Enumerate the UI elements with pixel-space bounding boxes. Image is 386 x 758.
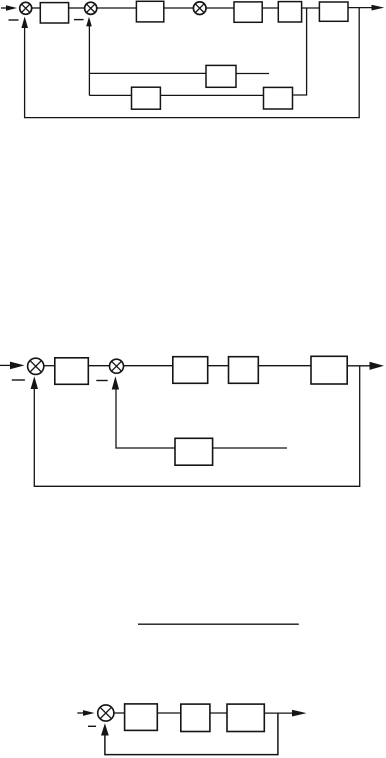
horizontal rule line bbox=[138, 623, 299, 625]
block B14 bbox=[125, 704, 158, 731]
block B9 bbox=[55, 358, 89, 385]
minus sign at S6 bbox=[88, 725, 96, 727]
wire B7 to B6 bbox=[160, 94, 263, 96]
wire S6 to B14 bbox=[114, 712, 125, 714]
wire S3 to B3 bbox=[206, 7, 234, 9]
arrowhead feedback into S5 bbox=[112, 376, 119, 389]
summer S5 bbox=[110, 359, 124, 373]
block B5 bbox=[319, 2, 348, 21]
wire S2 to B2 bbox=[97, 7, 136, 9]
arrowhead output bbox=[292, 710, 307, 717]
arrowhead feedback into S6 bbox=[101, 723, 109, 735]
wire B2 to S3 bbox=[164, 7, 193, 9]
wire S5 to B10 bbox=[124, 365, 173, 367]
arrowhead output bbox=[372, 5, 385, 11]
arrowhead output bbox=[370, 362, 385, 370]
wire B4 to B5 with node J1 bbox=[302, 7, 320, 9]
wire S1 to B1 bbox=[32, 7, 41, 9]
summer S4 bbox=[28, 358, 44, 374]
block B6 bbox=[132, 87, 161, 109]
wire takeoff J1 down to B7 bbox=[293, 8, 307, 95]
wire B3 to B4 bbox=[262, 7, 278, 9]
summer S1 bbox=[20, 2, 32, 14]
minus sign at S2 bbox=[74, 19, 84, 21]
wire output with node J4 bbox=[264, 712, 293, 714]
wire output with node J3 bbox=[347, 365, 371, 367]
wire B1 to S2 bbox=[69, 7, 85, 9]
wire middle feedback riser and left run bbox=[116, 389, 175, 449]
summer S3 bbox=[193, 2, 206, 15]
wire middle feedback right run (open end) bbox=[213, 447, 287, 449]
minus sign at S1 bbox=[9, 19, 19, 21]
block B16 bbox=[227, 704, 264, 731]
wire outer feedback J2 down, across, up into S1 bbox=[25, 8, 360, 118]
summer S6 bbox=[98, 705, 114, 721]
wire B6 to riser bbox=[89, 94, 131, 96]
wire input bbox=[0, 364, 11, 366]
block B7 bbox=[264, 87, 293, 109]
arrowhead feedback into S2 bbox=[86, 17, 92, 27]
block B8 bbox=[206, 65, 236, 87]
wire output C(s) with node J2 bbox=[348, 7, 373, 9]
wire outer feedback J3 down, across, up into S4 bbox=[34, 366, 359, 487]
wire upper feedback left of B8 bbox=[90, 72, 206, 74]
wire B9 to S5 bbox=[88, 365, 109, 367]
block B2 bbox=[136, 1, 163, 22]
arrowhead input bbox=[6, 5, 17, 10]
block B4 bbox=[278, 2, 301, 22]
block B1 bbox=[40, 3, 68, 23]
block B11 bbox=[229, 357, 259, 384]
arrowhead feedback into S4 bbox=[31, 376, 38, 389]
arrowhead input bbox=[10, 362, 25, 370]
wire B10 to B11 bbox=[208, 365, 229, 367]
wire riser up into S2 bbox=[88, 20, 90, 95]
block B13 bbox=[175, 438, 213, 465]
wire B15 to B16 bbox=[210, 712, 227, 714]
wire feedback J4 down, across, up into S6 bbox=[105, 713, 278, 755]
summer S2 bbox=[85, 2, 97, 14]
minus sign at S5 bbox=[96, 380, 107, 382]
arrowhead input bbox=[83, 710, 95, 716]
wire input R(s) bbox=[1, 7, 8, 9]
wire B11 to B12 bbox=[258, 365, 311, 367]
block B10 bbox=[173, 357, 208, 384]
block B3 bbox=[234, 2, 262, 22]
minus sign at S4 bbox=[12, 379, 25, 381]
arrowhead feedback into S1 bbox=[21, 17, 28, 29]
wire S4 to B9 bbox=[44, 365, 55, 367]
block B12 bbox=[311, 356, 347, 384]
wire upper feedback right of B8 (open end) bbox=[236, 73, 269, 75]
block B15 bbox=[181, 704, 210, 731]
wire B14 to B15 bbox=[157, 712, 181, 714]
wire input bbox=[77, 712, 84, 714]
